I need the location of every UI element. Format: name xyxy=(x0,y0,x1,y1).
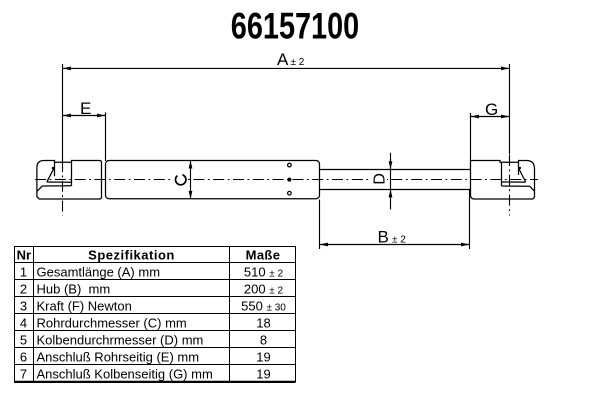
svg-text:66157100: 66157100 xyxy=(231,6,359,47)
arrow G right xyxy=(501,115,510,119)
left fitting slot vertical 2 xyxy=(71,162,73,186)
right fitting slot vertical B xyxy=(518,162,520,175)
svg-text:5: 5 xyxy=(20,332,27,347)
svg-text:± 2: ± 2 xyxy=(392,234,406,245)
left fitting slot line 1 xyxy=(47,181,72,183)
arrow C top xyxy=(189,161,193,169)
left fitting diagonal 2 xyxy=(37,186,42,191)
right fitting diagonal 1 xyxy=(519,168,526,182)
table bottom thick border xyxy=(14,381,296,383)
table outer border xyxy=(15,247,296,382)
svg-text:3: 3 xyxy=(20,298,27,313)
svg-text:E: E xyxy=(80,99,91,118)
svg-text:G: G xyxy=(485,100,498,119)
svg-text:± 2: ± 2 xyxy=(291,57,305,68)
svg-text:6: 6 xyxy=(20,349,27,364)
piston rod bottom edge xyxy=(320,189,471,191)
table row line 6 xyxy=(14,364,296,366)
svg-text:Rohrdurchmesser (C) mm: Rohrdurchmesser (C) mm xyxy=(37,315,187,330)
label C ring xyxy=(176,175,186,185)
arrow E right xyxy=(97,114,106,118)
svg-text:Kraft (F) Newton: Kraft (F) Newton xyxy=(37,298,132,313)
svg-text:8: 8 xyxy=(260,332,267,347)
arrow B right xyxy=(461,243,470,247)
left fitting diagonal 1 xyxy=(47,168,54,182)
right vertical centerline xyxy=(509,155,511,216)
dimension G line xyxy=(471,116,510,118)
tube hole middle filled xyxy=(287,178,291,182)
right fitting pin blob xyxy=(518,167,521,169)
label C background xyxy=(173,172,188,187)
tube hole top xyxy=(288,163,292,167)
dimension C line xyxy=(190,160,192,199)
dimension B extension line right xyxy=(469,190,471,249)
table header bottom line xyxy=(14,262,296,264)
left fitting slot line 2 xyxy=(42,185,71,187)
dimension G extension line left xyxy=(470,113,472,161)
svg-text:Anschluß Kolbenseitig (G) mm: Anschluß Kolbenseitig (G) mm xyxy=(37,366,213,381)
dimension D line xyxy=(390,153,392,210)
right fitting slot line 1 xyxy=(502,181,526,183)
svg-text:19: 19 xyxy=(256,366,270,381)
left end fitting outline xyxy=(37,161,102,200)
horizontal centerline xyxy=(35,179,538,181)
arrow B left xyxy=(320,243,329,247)
dimension E line xyxy=(63,115,106,117)
arrow A left xyxy=(63,67,72,71)
dimension B extension line left xyxy=(319,200,321,250)
svg-text:B: B xyxy=(378,227,389,246)
svg-text:Kolbendurchrmesser (D) mm: Kolbendurchrmesser (D) mm xyxy=(37,332,204,347)
svg-text:Maße: Maße xyxy=(246,248,281,263)
svg-text:1: 1 xyxy=(20,264,27,279)
table column divider 1 xyxy=(33,247,35,382)
svg-text:A: A xyxy=(277,50,289,69)
left vertical centerline xyxy=(62,161,64,216)
dimension A line xyxy=(63,67,510,69)
table row line 2 xyxy=(14,296,296,298)
cylinder tube xyxy=(106,161,320,199)
svg-text:4: 4 xyxy=(20,315,27,330)
arrow G left xyxy=(471,115,480,119)
dimension B line xyxy=(320,244,470,246)
arrow D bottom xyxy=(389,189,393,197)
table row line 5 xyxy=(14,347,296,349)
left fitting slot vertical 1 xyxy=(54,162,56,176)
piston rod top edge xyxy=(320,169,471,171)
right fitting diagonal 2 xyxy=(530,186,535,191)
svg-text:Anschluß Rohrseitig (E) mm: Anschluß Rohrseitig (E) mm xyxy=(37,349,200,364)
svg-text:Nr: Nr xyxy=(17,248,31,263)
table column divider 2 xyxy=(229,247,231,382)
tube hole bottom xyxy=(288,191,292,195)
svg-text:Spezifikation: Spezifikation xyxy=(88,248,175,263)
table row line 3 xyxy=(14,313,296,315)
arrow C bottom xyxy=(189,191,193,199)
svg-text:Gesamtlänge (A) mm: Gesamtlänge (A) mm xyxy=(37,264,161,279)
right end fitting outline xyxy=(471,161,535,200)
svg-text:18: 18 xyxy=(256,315,270,330)
right fitting slot vertical A xyxy=(501,162,503,186)
dimension A extension line left xyxy=(62,64,64,161)
arrow A right xyxy=(501,67,510,71)
svg-text:D: D xyxy=(371,173,388,185)
right fitting slot line 2 xyxy=(502,185,530,187)
left fitting pin blob xyxy=(52,167,55,169)
arrow D top xyxy=(389,161,393,169)
table row line 4 xyxy=(14,330,296,332)
dimension E extension line right xyxy=(105,113,107,162)
svg-text:19: 19 xyxy=(256,349,270,364)
table row line 1 xyxy=(14,279,296,281)
svg-text:2: 2 xyxy=(20,281,27,296)
arrow E left xyxy=(63,114,72,118)
svg-text:Hub (B) mm: Hub (B) mm xyxy=(37,281,111,296)
svg-text:7: 7 xyxy=(20,366,27,381)
dimension A extension line right xyxy=(509,64,511,155)
label D background xyxy=(371,172,388,187)
